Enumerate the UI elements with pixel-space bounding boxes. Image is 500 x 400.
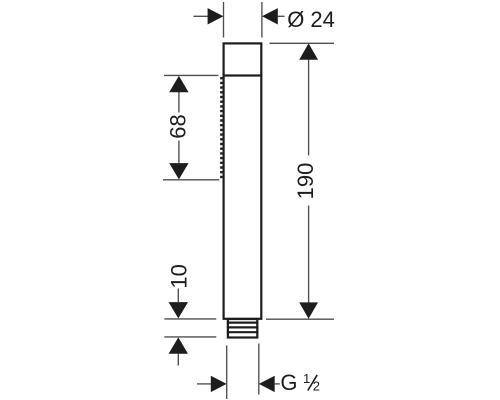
G half arrow left [211, 376, 227, 392]
dim190 extension bottom [266, 318, 334, 320]
G half tail left [197, 383, 212, 385]
svg-text:68: 68 [166, 114, 191, 138]
G half extension right [258, 344, 260, 395]
dim10 arrow down [169, 302, 188, 318]
dim190 arrow up [299, 43, 318, 59]
dim10 tail bottom [177, 354, 179, 366]
dim10 extension upper [164, 318, 216, 320]
dim68 line lower [178, 141, 180, 164]
dim68 arrow up [169, 76, 188, 92]
dim190 line lower [308, 206, 310, 303]
svg-text:10: 10 [167, 264, 192, 288]
G half label fraction slash [308, 375, 317, 391]
shower body outline [224, 43, 262, 318]
dia24 arrow left [208, 8, 224, 24]
dia24 arrow right [262, 8, 278, 24]
dia24 extension line left [223, 2, 225, 38]
dim10 arrow up [169, 337, 188, 353]
svg-text:2: 2 [313, 379, 320, 394]
dim190 line upper [308, 60, 310, 156]
dim190 arrow down [299, 302, 318, 318]
dim68 arrow down [169, 163, 188, 179]
dim190 extension top [270, 42, 335, 44]
thread line 1 [227, 322, 259, 324]
G half arrow right [259, 376, 275, 392]
G half tail right [274, 383, 280, 385]
dim10 extension lower [164, 336, 216, 338]
thread block [228, 319, 257, 338]
thread line 3 [227, 331, 259, 333]
dia24 tail left [193, 15, 208, 17]
dim68 extension bottom [163, 179, 219, 181]
svg-text:G: G [280, 370, 297, 395]
head joint line [223, 74, 263, 76]
dim68 line upper [178, 92, 180, 113]
svg-text:190: 190 [293, 163, 318, 200]
thread line 2 [227, 326, 259, 328]
nozzle dotted line [220, 77, 222, 179]
svg-text:1: 1 [303, 371, 310, 386]
dia24 tail right [278, 15, 285, 17]
dim68 extension top [164, 74, 218, 76]
G half extension left [226, 346, 228, 400]
dia24 extension line right [261, 2, 263, 38]
svg-text:Ø 24: Ø 24 [287, 7, 335, 32]
dim10 tail mid [177, 289, 179, 303]
